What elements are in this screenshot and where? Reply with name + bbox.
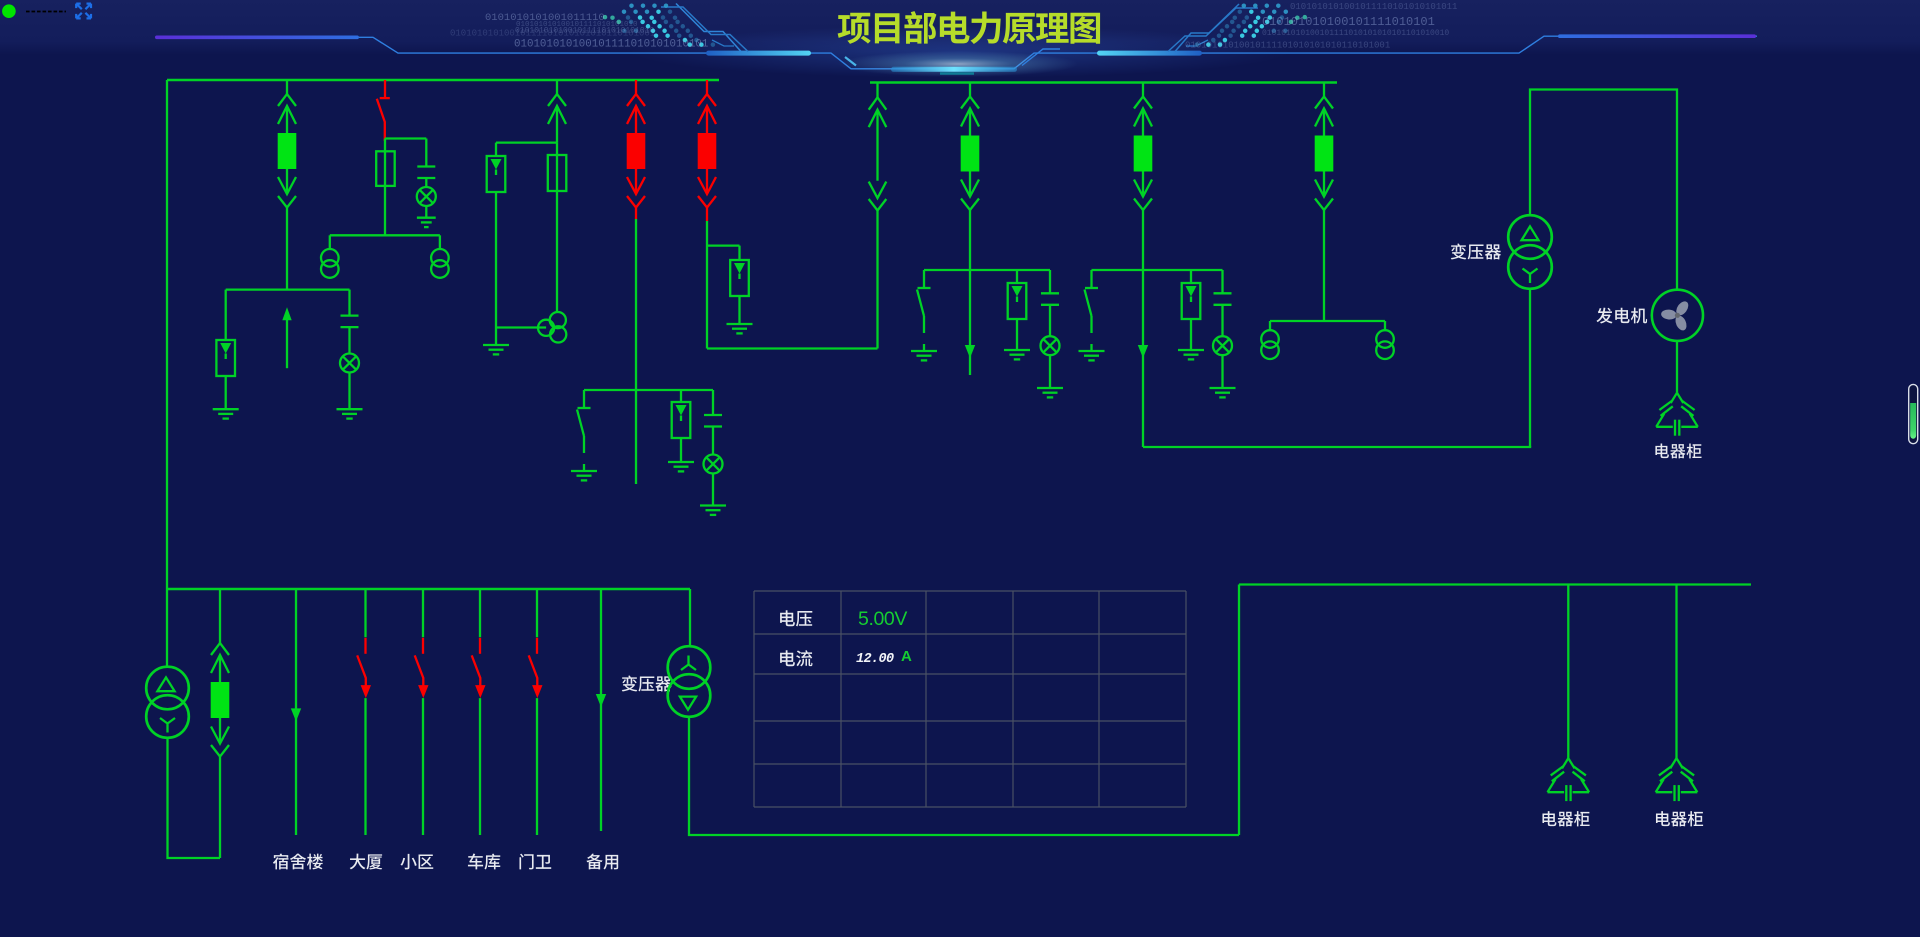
- transformer T-BR delta: [680, 697, 696, 710]
- transformer T-BL wye: [160, 718, 175, 733]
- ground of arrester FD: [668, 461, 694, 463]
- svg-text:010101010100101111010101010101: 01010101010010111101010101010110101001: [450, 29, 655, 39]
- wire S大厦 upper: [364, 589, 366, 637]
- scroll widget: [1909, 384, 1918, 443]
- disconnect switch SD: [583, 390, 585, 408]
- wire feeder B xfmr bar: [330, 234, 440, 236]
- wire T-BL drop: [166, 589, 168, 667]
- load arrow feeder A: [282, 307, 291, 320]
- wire feeder G tail: [969, 270, 971, 375]
- status indicator dot: [2, 4, 16, 18]
- wire feeder E red tail: [706, 208, 708, 222]
- page title 项目部电力原理图: [838, 11, 1100, 44]
- wire feeder A branch bar: [226, 288, 350, 290]
- isolator (QE lower): [706, 169, 708, 194]
- breaker QI: [1315, 136, 1334, 172]
- wire S车库 lower: [479, 698, 481, 835]
- wire feeder D tail: [635, 390, 637, 484]
- surge arrester FG: [1008, 283, 1027, 319]
- table label 电流: [780, 650, 812, 666]
- wire feeder I xfmr bar: [1270, 320, 1385, 322]
- isolator (QI lower): [1323, 172, 1325, 197]
- wire feeder 宿舍楼: [295, 589, 297, 835]
- wire arrester D gnd lead: [680, 438, 682, 462]
- transformer TB2: [431, 249, 449, 267]
- load arrow feeder G: [965, 345, 975, 358]
- switch tick S车库: [479, 638, 481, 654]
- label 备用: [586, 854, 618, 870]
- switch tick S门卫: [536, 638, 538, 654]
- wire feeder E drop: [706, 221, 708, 349]
- isolator (QH lower): [1142, 172, 1144, 197]
- svg-text:010101010100101111010101010101: 010101010100101111010101010101101010010: [1262, 29, 1449, 38]
- header pill center reflection: [940, 72, 974, 74]
- wire riser right of table: [1238, 585, 1240, 836]
- wire feeder H branch bar: [1092, 269, 1223, 271]
- isolator (QE upper): [706, 80, 708, 94]
- ground of switch SH: [1079, 350, 1105, 352]
- wire feeder E arrester bar: [707, 244, 740, 246]
- header pill left: [706, 51, 811, 56]
- disconnect switch SH: [1090, 270, 1092, 288]
- ground of switch SD: [571, 470, 597, 472]
- surge arrester FD: [672, 402, 691, 438]
- wire cap A to lamp: [348, 327, 350, 353]
- switch tick S大厦: [364, 638, 366, 654]
- capacitor CH: [1214, 292, 1232, 294]
- breaker QBL: [211, 682, 230, 718]
- ground of lamp HL-D: [700, 504, 726, 506]
- load arrow 备用: [596, 694, 606, 707]
- svg-text:12.00: 12.00: [856, 652, 894, 667]
- wire feeder D branch bar: [584, 389, 713, 391]
- switch blade S车库: [472, 655, 481, 685]
- ground of arrester FH: [1178, 349, 1204, 351]
- header bar left: [155, 36, 359, 40]
- wire feeder A drop: [286, 208, 288, 290]
- wire T-BR drop: [689, 589, 691, 646]
- wire arrester G drop: [1016, 270, 1018, 283]
- dashed separator: [26, 11, 66, 13]
- indicator lamp HL-D: [704, 455, 723, 474]
- transformer TB1: [321, 249, 339, 267]
- transformer T-BR wye: [681, 656, 696, 671]
- label 电器柜 (top right): [1655, 443, 1701, 458]
- svg-text:A: A: [901, 648, 912, 665]
- breaker QG: [961, 136, 980, 172]
- breaker QH: [1134, 136, 1153, 172]
- isolator QF: [876, 83, 878, 98]
- cabinet symbol bottom 1: [1548, 758, 1569, 792]
- label 发电机: [1596, 308, 1647, 324]
- wire S大厦 lower: [364, 698, 366, 835]
- label 大厦: [350, 854, 383, 870]
- switch blade S小区: [415, 655, 424, 685]
- label 变压器 (bottom): [622, 675, 672, 691]
- header pill center: [891, 67, 1017, 72]
- header pill right: [1097, 51, 1202, 56]
- wire left riser: [166, 80, 168, 589]
- wire S门卫 lower: [536, 698, 538, 835]
- trace right 3: [1186, 40, 1208, 46]
- svg-text:010101010100101111010101: 010101010100101111010101: [1262, 15, 1435, 29]
- wire breaker BL stub: [219, 589, 221, 643]
- expand icon: [76, 4, 82, 10]
- label 宿舍楼: [273, 854, 323, 870]
- wire lamp D gnd lead: [712, 474, 714, 506]
- wire feeder D red tail: [635, 208, 637, 220]
- data table grid: [753, 591, 755, 807]
- indicator lamp HL-A: [340, 354, 359, 373]
- wire cap A drop: [348, 290, 350, 316]
- cabinet symbol bottom 2: [1656, 758, 1677, 792]
- label 电器柜 (bottom 1): [1542, 811, 1589, 826]
- isolator (QI upper): [1323, 83, 1325, 97]
- svg-text:010101010100101111010101010101: 010101010100101111010101010101: [514, 39, 708, 51]
- ground of arrester FE: [727, 323, 753, 325]
- generator G1: [1652, 290, 1703, 341]
- ground of lamp HL-H: [1210, 387, 1236, 389]
- wire transformer TR bottom: [1529, 290, 1531, 448]
- bus 1: [167, 79, 719, 82]
- fuse FB: [376, 151, 395, 186]
- wire breaker BL tail: [219, 757, 221, 859]
- wire generator to cabinet: [1676, 341, 1678, 393]
- wire feeder B to fuse: [384, 139, 386, 152]
- header pill center glow: [838, 51, 1078, 77]
- isolator (QD lower): [635, 169, 637, 194]
- wire feeder I drop: [1323, 210, 1325, 321]
- svg-text:010101010100101111010101010101: 0101010101001011110101010101011: [1290, 2, 1457, 12]
- surge arrester FC: [487, 156, 506, 192]
- isolator (QH upper): [1142, 83, 1144, 97]
- trace right 1: [1175, 4, 1239, 52]
- trace left 1: [676, 4, 741, 52]
- surge arrester FE: [730, 260, 749, 296]
- bus bottom-right: [1239, 583, 1751, 585]
- wire transformer TR top: [1530, 90, 1677, 290]
- ground of arrester FG: [1004, 349, 1030, 351]
- cabinet symbol top right: [1656, 393, 1677, 427]
- wire S门卫 upper: [536, 589, 538, 637]
- wire feeder D drop: [635, 219, 637, 390]
- switch blade B: [377, 99, 385, 141]
- wire S小区 lower: [422, 698, 424, 835]
- trace right 2: [1168, 8, 1258, 52]
- wire arrester D drop: [680, 390, 682, 402]
- load arrow 宿舍楼: [291, 708, 301, 721]
- header bar right: [1558, 34, 1756, 38]
- wire xfmr B2 drop: [439, 235, 441, 249]
- wire T-BL tail: [168, 738, 221, 859]
- wire feeder B drop: [384, 186, 386, 235]
- wire feeder C drop: [556, 191, 558, 312]
- wire arrester A gnd lead: [225, 376, 227, 409]
- disconnect switch SG: [923, 270, 925, 288]
- wire feeder H drop: [1142, 210, 1144, 270]
- wire cap H drop: [1221, 270, 1223, 293]
- surge arrester FA: [216, 340, 235, 376]
- bus 2: [870, 81, 1337, 84]
- breaker QA: [278, 133, 297, 169]
- isolator (QD upper): [635, 80, 637, 94]
- trace left 2: [661, 7, 748, 52]
- wire feeder F drop: [876, 211, 878, 349]
- trace left 3: [712, 40, 734, 46]
- wire arrester A drop: [225, 290, 227, 340]
- wire S车库 upper: [479, 589, 481, 637]
- transformer T-BL: [146, 667, 189, 710]
- wire lamp H gnd lead: [1221, 355, 1223, 388]
- wire arrester G gnd lead: [1016, 319, 1018, 350]
- label 电器柜 (bottom 2): [1656, 811, 1703, 826]
- wire feeder C junction bar: [496, 141, 557, 143]
- ground of lamp HL-G: [1037, 387, 1063, 389]
- wire feeder B stub: [384, 80, 386, 97]
- switch arrow S大厦: [361, 685, 371, 698]
- wire feeder 备用: [600, 589, 602, 831]
- switch tick B: [380, 97, 390, 99]
- capacitor CG: [1041, 292, 1059, 294]
- label 门卫: [519, 854, 551, 870]
- transformer T-BR: [668, 646, 711, 689]
- header background band: [0, 0, 1920, 55]
- switch arrow S车库: [475, 685, 485, 698]
- wire arrester H gnd lead: [1190, 319, 1192, 350]
- wire cap H to lamp: [1221, 305, 1223, 336]
- wire cabinet 1 drop: [1567, 585, 1569, 759]
- wire T-BR tail: [689, 717, 1239, 835]
- wire arrester E drop: [738, 246, 740, 260]
- wire arrester C tail: [495, 192, 497, 345]
- generator fan blades: [1674, 299, 1691, 317]
- wire lamp B gnd lead: [425, 206, 427, 218]
- indicator lamp HL-H: [1213, 336, 1232, 355]
- wire feeder G branch bar: [924, 269, 1050, 271]
- three-winding transformer TC: [550, 312, 566, 328]
- ground of lamp HL-B: [417, 217, 436, 219]
- header notch left: [845, 57, 856, 66]
- switch tick S小区: [422, 638, 424, 654]
- wire arrester C drop: [495, 143, 497, 156]
- wire lamp A gnd lead: [348, 373, 350, 410]
- wire feeder A tail: [286, 316, 288, 368]
- switch arrow S门卫: [532, 685, 542, 698]
- wire feeder H tail: [1142, 270, 1144, 447]
- switch blade S大厦: [357, 655, 366, 685]
- isolator QBL upper: [211, 643, 229, 655]
- isolator (QA upper): [286, 80, 288, 94]
- wire feeder G drop: [969, 210, 971, 270]
- switch blade S门卫: [529, 655, 538, 685]
- capacitor CB: [417, 165, 435, 167]
- label 变压器 (top): [1451, 243, 1501, 259]
- wire xfmr I2 drop: [1384, 321, 1386, 330]
- wire xfmr I1 drop: [1269, 321, 1271, 330]
- transformer TI2: [1376, 330, 1394, 348]
- fuse FC: [548, 155, 567, 191]
- switch arrow S小区: [418, 685, 428, 698]
- wire cap G drop: [1049, 270, 1051, 293]
- breaker QD: [627, 133, 646, 169]
- ground of switch SG: [911, 350, 937, 352]
- wire arrester C link: [496, 326, 546, 328]
- wire cap D drop: [712, 390, 714, 415]
- svg-text:010101010100101111010101010101: 01010101010010111101010101010110101001: [1185, 41, 1390, 51]
- isolator QC: [556, 80, 558, 94]
- wire link E-F: [707, 347, 878, 349]
- transformer TR: [1508, 215, 1552, 259]
- indicator lamp HL-B: [417, 187, 436, 206]
- wire arrester E gnd lead: [738, 296, 740, 324]
- wire feeder B junction bar: [385, 137, 426, 139]
- transformer TI1: [1261, 330, 1279, 348]
- wire cap B to lamp: [425, 178, 427, 187]
- isolator (QG lower): [969, 172, 971, 197]
- surge arrester FH: [1182, 283, 1201, 319]
- table label 电压: [780, 610, 812, 626]
- label 小区: [400, 854, 433, 870]
- wire feeder C to fuse: [556, 143, 558, 155]
- transformer T-BL delta: [157, 677, 174, 691]
- transformer TR wye: [1523, 269, 1538, 284]
- wire cap G to lamp: [1049, 305, 1051, 336]
- wire lamp G gnd lead: [1049, 355, 1051, 388]
- capacitor CA: [341, 314, 359, 316]
- wire link H to transformer: [1143, 446, 1531, 448]
- capacitor CD: [704, 414, 722, 416]
- isolator (QG upper): [969, 83, 971, 97]
- wire S小区 upper: [422, 589, 424, 637]
- bus bottom-left: [167, 588, 690, 591]
- header notch right: [1022, 49, 1060, 66]
- wire cap B drop: [425, 139, 427, 167]
- isolator QBL lower: [219, 718, 221, 744]
- indicator lamp HL-G: [1041, 336, 1060, 355]
- wire cabinet 2 drop: [1675, 585, 1677, 759]
- wire cap D to lamp: [712, 427, 714, 455]
- isolator (QA lower): [286, 169, 288, 194]
- wire xfmr B1 drop: [329, 235, 331, 249]
- ground of lamp HL-A: [337, 408, 363, 410]
- ground of arrester FA: [213, 408, 239, 410]
- transformer TR delta: [1522, 226, 1539, 240]
- label 车库: [468, 854, 500, 870]
- load arrow feeder H: [1138, 345, 1148, 358]
- svg-text:5.00V: 5.00V: [858, 608, 907, 630]
- wire arrester H drop: [1190, 270, 1192, 283]
- ground of arrester FC: [483, 344, 509, 346]
- breaker QE: [698, 133, 717, 169]
- header trace left: [359, 36, 1757, 69]
